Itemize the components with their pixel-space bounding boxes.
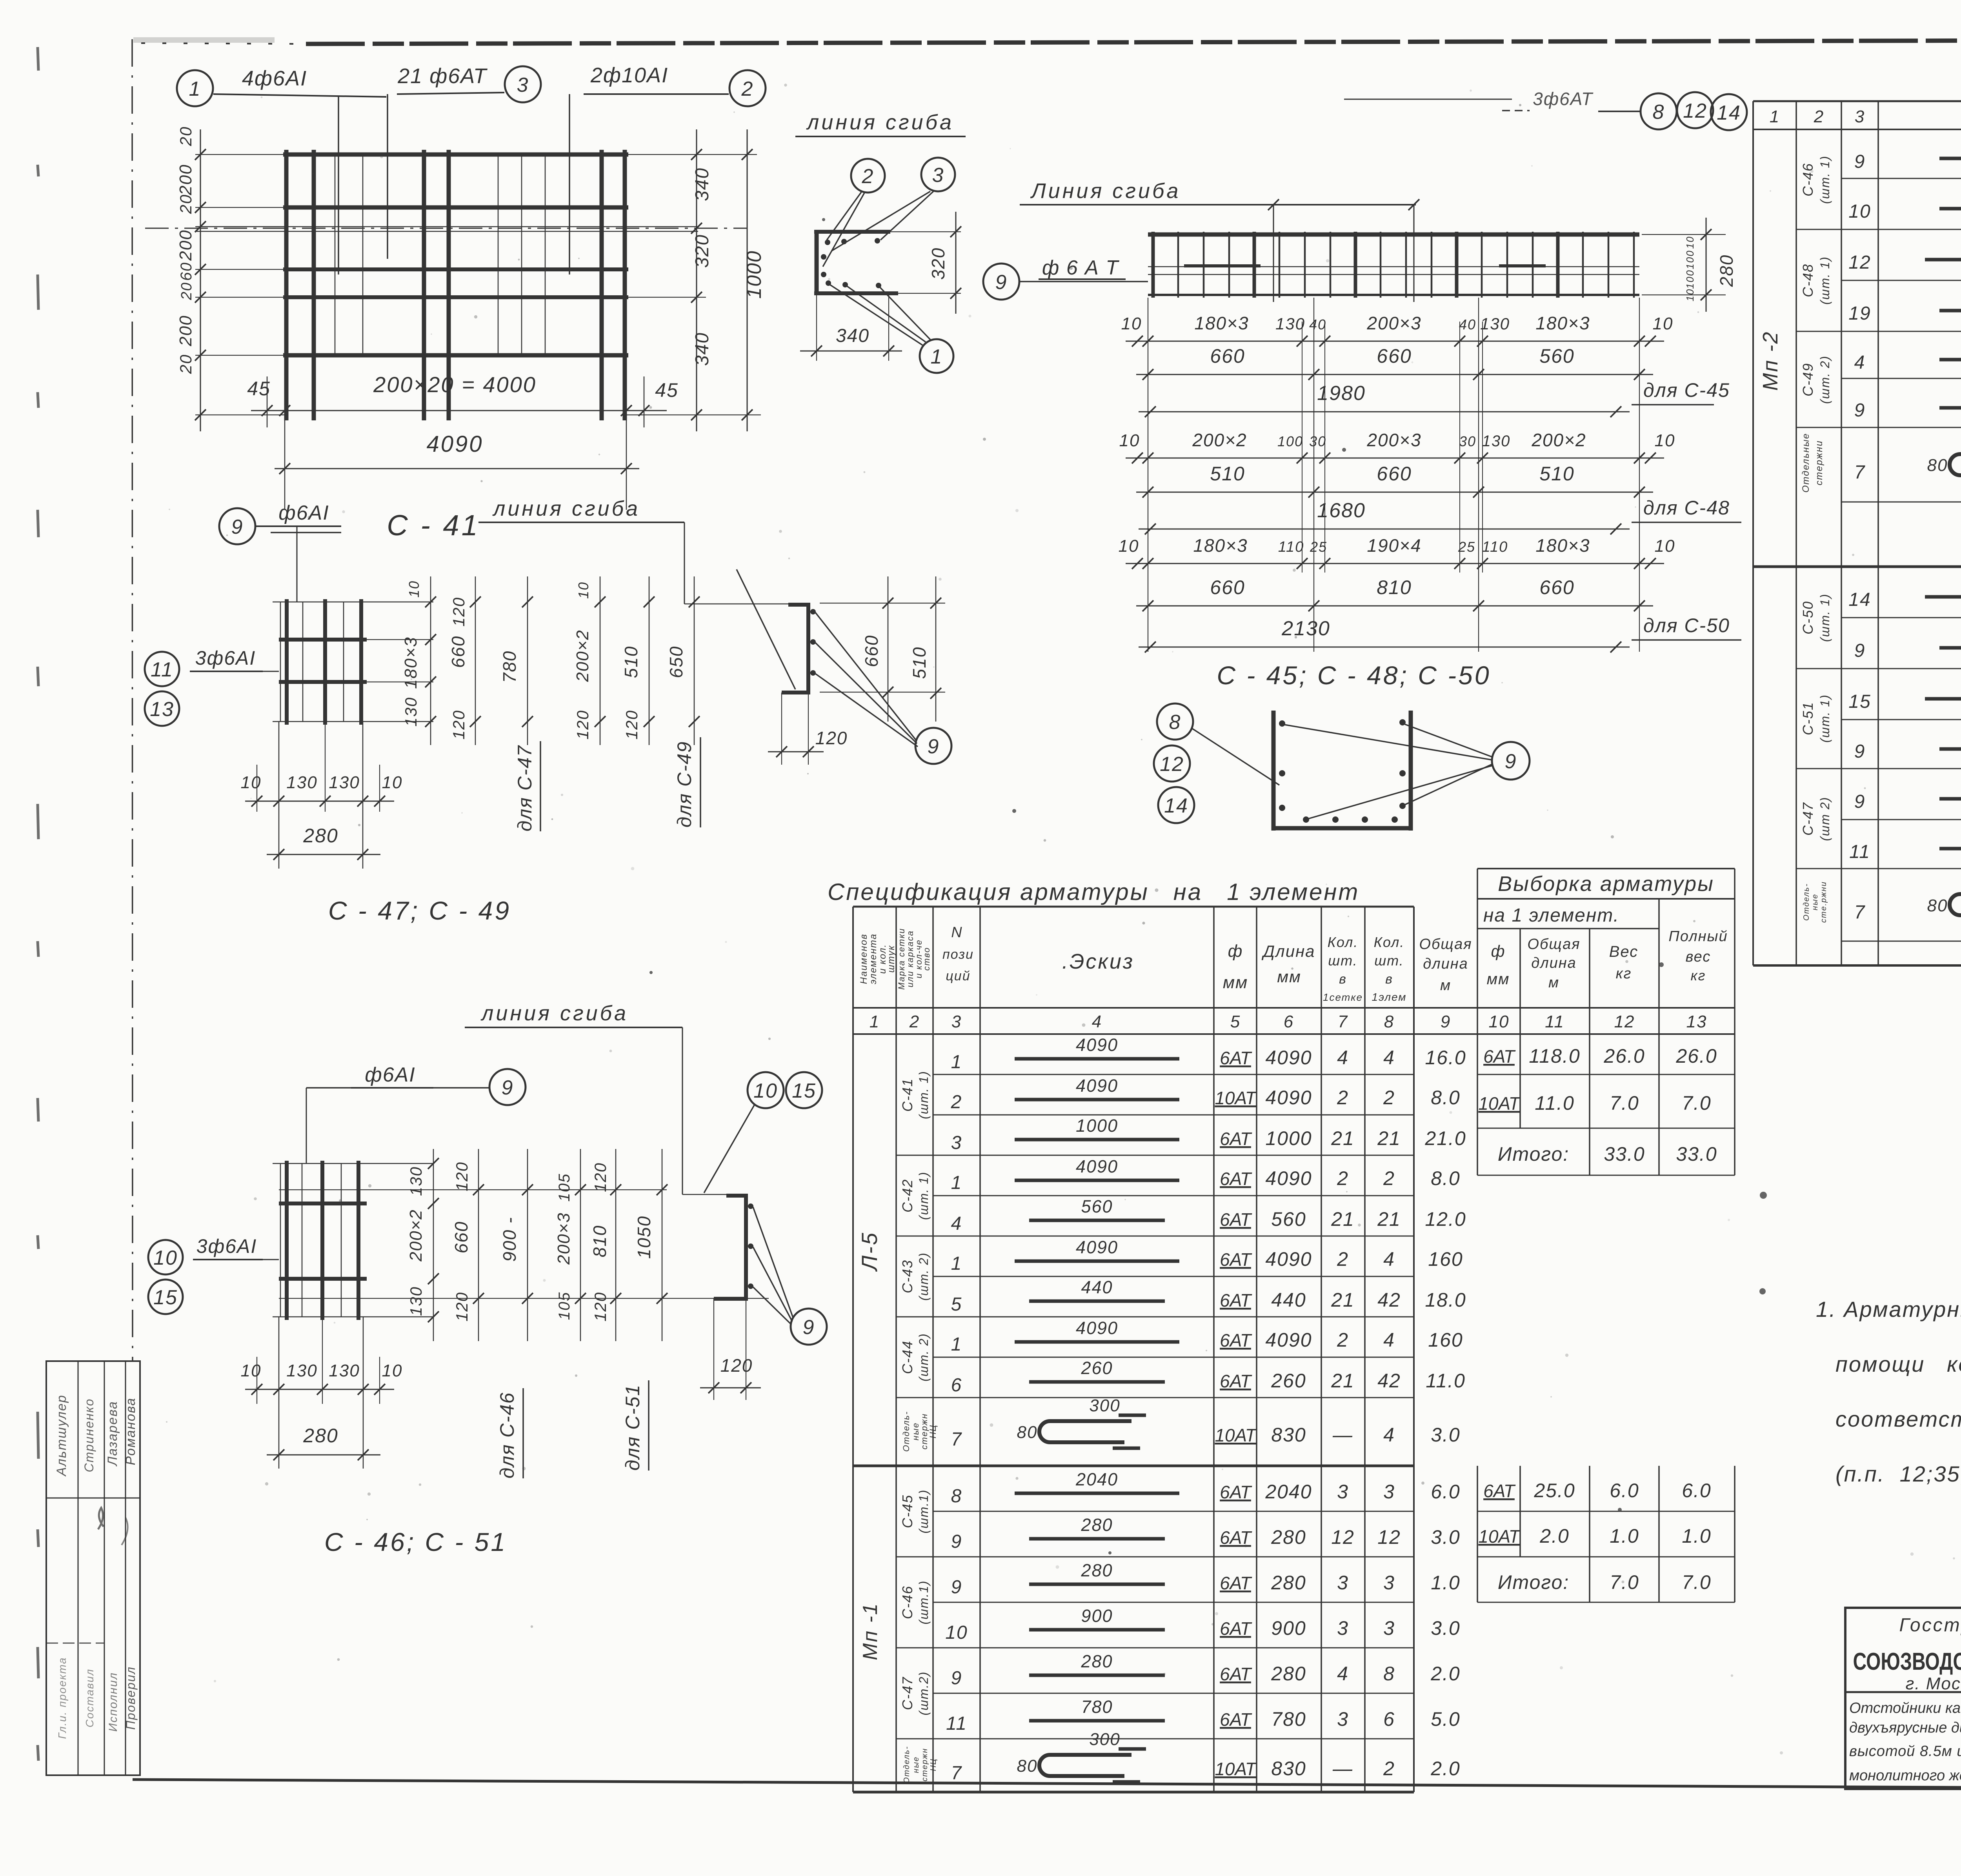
svg-text:сте.ржни: сте.ржни: [1819, 881, 1828, 923]
svg-text:3: 3: [1337, 1617, 1349, 1639]
svg-text:9: 9: [1854, 640, 1866, 661]
svg-text:510: 510: [621, 646, 641, 678]
svg-text:440: 440: [1271, 1289, 1306, 1311]
svg-text:3.0: 3.0: [1431, 1424, 1461, 1446]
svg-text:2: 2: [909, 1012, 920, 1031]
svg-text:6: 6: [1284, 1012, 1294, 1031]
svg-text:3: 3: [517, 74, 529, 96]
svg-text:40: 40: [1309, 316, 1326, 333]
svg-text:(шт. 2): (шт. 2): [1818, 355, 1832, 404]
svg-text:280: 280: [1716, 254, 1737, 287]
svg-text:4090: 4090: [1265, 1087, 1312, 1109]
svg-text:10: 10: [575, 582, 591, 599]
svg-text:(шт.1): (шт.1): [917, 1489, 931, 1534]
svg-text:Длина: Длина: [1261, 942, 1315, 960]
mesh C-41 horizontal rebars: [283, 153, 628, 157]
svg-text:510: 510: [1539, 463, 1574, 485]
svg-text:1000: 1000: [1076, 1116, 1118, 1136]
svg-text:4ф6АІ: 4ф6АІ: [242, 67, 307, 90]
svg-text:120: 120: [622, 710, 641, 740]
svg-text:4090: 4090: [1076, 1035, 1118, 1055]
C-47 callout 9 with label ф6АІ: [219, 508, 255, 544]
svg-text:180×3: 180×3: [1535, 313, 1590, 333]
svg-text:15: 15: [1848, 691, 1871, 712]
svg-text:12: 12: [1331, 1526, 1355, 1548]
svg-text:80: 80: [1927, 456, 1948, 475]
svg-text:ф6АІ: ф6АІ: [278, 502, 329, 524]
svg-text:260: 260: [1081, 1358, 1113, 1378]
svg-text:9: 9: [502, 1076, 514, 1099]
svg-text:6АТ: 6АТ: [1483, 1481, 1516, 1501]
svg-text:С-46: С-46: [899, 1585, 915, 1619]
svg-text:200×3: 200×3: [1366, 430, 1421, 450]
svg-text:33.0: 33.0: [1676, 1143, 1717, 1165]
central выборка grid: [1477, 869, 1478, 1175]
svg-text:560: 560: [1081, 1196, 1113, 1216]
svg-text:10АТ: 10АТ: [1215, 1759, 1257, 1779]
C-46 L-section callout 9 with fan leaders: [791, 1309, 827, 1345]
C-46 bent L-section: [744, 1196, 748, 1300]
C-50 dim row 10/180x3/110/25/190x4/25/110/180x3/10: [1126, 563, 1664, 564]
svg-text:21 ф6АТ: 21 ф6АТ: [397, 64, 488, 88]
svg-text:660: 660: [448, 636, 468, 668]
svg-text:ф: ф: [1228, 942, 1243, 961]
svg-text:1: 1: [951, 1334, 962, 1355]
svg-text:42: 42: [1377, 1370, 1401, 1392]
svg-text:340: 340: [692, 167, 713, 201]
svg-text:10: 10: [382, 1361, 403, 1380]
svg-text:25.0: 25.0: [1534, 1480, 1575, 1502]
svg-text:20: 20: [176, 354, 195, 374]
svg-text:650: 650: [666, 646, 686, 678]
svg-text:Итого:: Итого:: [1498, 1143, 1569, 1165]
svg-text:ф: ф: [1491, 942, 1505, 960]
svg-text:7: 7: [951, 1763, 962, 1783]
svg-text:33.0: 33.0: [1604, 1143, 1645, 1165]
C-45 strip mesh: [1148, 233, 1639, 237]
page frame left border (dash-dot): [132, 39, 133, 1361]
svg-text:Л-5: Л-5: [857, 1231, 882, 1272]
svg-text:180×3: 180×3: [1193, 535, 1248, 556]
svg-text:130: 130: [1275, 314, 1305, 333]
svg-text:7: 7: [1338, 1012, 1348, 1031]
svg-text:Стриненко: Стриненко: [82, 1398, 96, 1472]
svg-text:21: 21: [1331, 1289, 1355, 1311]
svg-text:Составил: Составил: [84, 1669, 96, 1727]
svg-text:Вес: Вес: [1609, 943, 1638, 960]
svg-text:монолитного железобетона.: монолитного железобетона.: [1849, 1767, 1961, 1784]
svg-text:мм: мм: [1277, 967, 1301, 986]
svg-text:6АТ: 6АТ: [1220, 1330, 1252, 1351]
C-46 callouts 10 15 (top right): [748, 1072, 784, 1108]
svg-text:3: 3: [951, 1133, 962, 1153]
svg-text:6АТ: 6АТ: [1220, 1371, 1252, 1391]
right table bottom border: [1753, 964, 1961, 967]
svg-text:5.0: 5.0: [1431, 1708, 1461, 1730]
C-50 dim row 2130 для С-50: [1139, 647, 1630, 648]
svg-text:200: 200: [176, 229, 195, 261]
svg-text:11: 11: [151, 658, 173, 681]
svg-text:стержни: стержни: [1814, 440, 1825, 485]
svg-text:Мп -2: Мп -2: [1759, 331, 1782, 391]
mesh C-47: [285, 599, 289, 725]
svg-text:11.0: 11.0: [1426, 1370, 1466, 1392]
svg-text:8: 8: [1169, 711, 1181, 734]
svg-text:2ф10АІ: 2ф10АІ: [590, 64, 668, 87]
svg-text:120: 120: [573, 710, 592, 740]
C-45 U-shaped cross-section: [1272, 711, 1276, 831]
svg-text:Выборка арматуры: Выборка арматуры: [1498, 872, 1714, 896]
svg-text:высотой 8.5м и 9.7м из: высотой 8.5м и 9.7м из: [1849, 1743, 1961, 1760]
svg-text:80: 80: [1927, 896, 1948, 915]
svg-text:6АТ: 6АТ: [1220, 1048, 1252, 1068]
svg-text:10: 10: [945, 1622, 968, 1643]
central выборка арматуры sub-table: [1477, 868, 1735, 869]
C-41 left dimension chain: [200, 129, 201, 431]
svg-text:10: 10: [753, 1080, 778, 1102]
svg-text:45: 45: [247, 378, 271, 400]
svg-text:2: 2: [1337, 1087, 1349, 1109]
svg-text:1: 1: [189, 78, 201, 100]
svg-text:6АТ: 6АТ: [1220, 1482, 1252, 1502]
svg-text:6АТ: 6АТ: [1483, 1046, 1516, 1067]
svg-text:4090: 4090: [1265, 1167, 1312, 1189]
svg-text:ф 6 А Т: ф 6 А Т: [1042, 256, 1119, 279]
svg-text:7: 7: [1854, 902, 1866, 923]
svg-text:2.0: 2.0: [1430, 1758, 1461, 1780]
svg-text:НЦ: НЦ: [929, 1758, 938, 1771]
svg-text:200×3: 200×3: [554, 1212, 573, 1265]
svg-text:130: 130: [286, 773, 317, 792]
svg-text:2040: 2040: [1265, 1481, 1312, 1503]
svg-text:320: 320: [928, 247, 948, 280]
svg-text:160: 160: [1428, 1329, 1463, 1351]
svg-text:10: 10: [1119, 536, 1139, 556]
svg-text:(шт. 2): (шт. 2): [917, 1252, 931, 1301]
svg-text:780: 780: [1271, 1708, 1306, 1730]
svg-text:200: 200: [176, 315, 195, 346]
svg-text:200: 200: [176, 164, 195, 195]
svg-text:стержн: стержн: [920, 1748, 929, 1781]
svg-text:4: 4: [1337, 1047, 1349, 1069]
svg-text:2: 2: [1337, 1248, 1349, 1270]
svg-text:1980: 1980: [1317, 382, 1366, 405]
svg-text:двухъярусные диаметром 9м,: двухъярусные диаметром 9м,: [1849, 1720, 1961, 1736]
mesh C-41 axis dash-dot line: [145, 228, 747, 229]
C-48 dim row 10/200x2/100/30/200x3/30/130/200x2/10: [1126, 458, 1664, 459]
svg-text:9: 9: [951, 1577, 962, 1598]
right table outer and grid: [1753, 100, 1961, 102]
svg-text:2.0: 2.0: [1539, 1525, 1570, 1547]
svg-text:9: 9: [231, 516, 244, 538]
svg-text:ные: ные: [912, 1756, 920, 1773]
C-41 bottom dimension 4090: [275, 468, 639, 469]
svg-text:шт.: шт.: [1328, 953, 1357, 969]
svg-text:12.0: 12.0: [1425, 1208, 1466, 1230]
svg-text:10: 10: [1655, 536, 1675, 556]
svg-text:110: 110: [1482, 539, 1508, 555]
svg-text:(шт. 1): (шт. 1): [1818, 155, 1832, 204]
svg-text:2: 2: [862, 165, 874, 188]
svg-text:1: 1: [951, 1172, 962, 1193]
svg-text:105: 105: [556, 1292, 573, 1320]
svg-text:м: м: [1440, 977, 1451, 994]
svg-text:30: 30: [1309, 433, 1326, 449]
svg-text:4090: 4090: [1076, 1076, 1118, 1096]
svg-text:Общая: Общая: [1419, 936, 1472, 953]
svg-text:200×20 = 4000: 200×20 = 4000: [373, 372, 537, 397]
svg-text:С-44: С-44: [899, 1340, 915, 1374]
svg-text:12: 12: [1614, 1012, 1635, 1031]
svg-text:ф6АІ: ф6АІ: [365, 1063, 416, 1086]
C-47 L-section leader from callouts 11 13: [737, 569, 795, 689]
mesh C-41 callout 1: [177, 70, 213, 106]
svg-text:9: 9: [1505, 750, 1517, 773]
svg-text:510: 510: [1210, 463, 1245, 485]
svg-text:(шт 2): (шт 2): [1818, 796, 1832, 841]
svg-text:для С-45: для С-45: [1643, 379, 1730, 401]
svg-text:120: 120: [591, 1162, 609, 1192]
C-45 U-section rebar dots: [1279, 720, 1285, 727]
svg-text:7.0: 7.0: [1682, 1571, 1712, 1593]
svg-text:440: 440: [1081, 1277, 1113, 1297]
svg-text:130: 130: [286, 1361, 317, 1380]
svg-text:280: 280: [1081, 1651, 1113, 1671]
svg-text:С-41: С-41: [899, 1078, 915, 1112]
svg-text:260: 260: [1271, 1370, 1306, 1392]
svg-text:120: 120: [453, 1162, 471, 1191]
svg-text:13: 13: [150, 698, 174, 721]
svg-text:45: 45: [655, 379, 679, 401]
svg-text:14: 14: [1848, 589, 1871, 610]
mesh C-46: [285, 1161, 289, 1320]
C-46 callouts 10 15 (left): [148, 1240, 183, 1274]
svg-text:1.0: 1.0: [1431, 1572, 1461, 1594]
svg-text:15: 15: [153, 1286, 178, 1309]
svg-text:4: 4: [1383, 1047, 1395, 1069]
leader lines from callouts into mesh C-41: [338, 97, 339, 274]
svg-text:280: 280: [1271, 1663, 1306, 1685]
svg-text:Отдель-: Отдель-: [902, 1746, 911, 1783]
svg-text:штук: штук: [886, 945, 897, 973]
svg-text:Наименов: Наименов: [859, 934, 869, 984]
svg-text:900 -: 900 -: [499, 1217, 520, 1262]
svg-text:660: 660: [1377, 345, 1412, 367]
svg-text:6АТ: 6АТ: [1220, 1664, 1252, 1684]
svg-text:660: 660: [451, 1221, 471, 1254]
svg-text:7.0: 7.0: [1682, 1092, 1712, 1114]
right table group separators: [1796, 229, 1841, 230]
svg-text:21: 21: [1377, 1127, 1401, 1149]
svg-text:10: 10: [1684, 236, 1696, 249]
scan noise speckles: [969, 315, 971, 318]
svg-text:Спецификация арматуры на: Спецификация арматуры на 1 элемент: [828, 879, 1359, 905]
svg-text:4: 4: [1854, 352, 1866, 373]
svg-text:2: 2: [1383, 1087, 1395, 1109]
svg-text:14: 14: [1164, 794, 1188, 817]
svg-text:(п.п. 12;35; 12;36).: (п.п. 12;35; 12;36).: [1835, 1462, 1961, 1486]
C-41 section callout 1 with leaders: [920, 339, 953, 373]
svg-text:N: N: [951, 924, 962, 941]
central table outer and header grid: [853, 906, 1414, 908]
svg-text:10: 10: [406, 580, 422, 598]
svg-text:1.0: 1.0: [1610, 1525, 1639, 1547]
svg-text:ство: ство: [922, 947, 931, 971]
svg-text:3: 3: [1337, 1708, 1349, 1730]
svg-text:180×3: 180×3: [401, 636, 420, 689]
svg-text:280: 280: [1081, 1515, 1113, 1535]
svg-text:кг: кг: [1691, 967, 1706, 983]
svg-text:С-50: С-50: [1800, 601, 1816, 634]
svg-text:ций: ций: [946, 969, 970, 983]
C-41 bent section outline: [815, 232, 819, 293]
svg-text:1.0: 1.0: [1682, 1525, 1712, 1547]
svg-text:9: 9: [803, 1316, 815, 1339]
svg-text:3ф6АТ: 3ф6АТ: [1533, 89, 1594, 109]
mesh C-41 vertical rebars: [284, 150, 289, 420]
svg-text:2: 2: [951, 1092, 962, 1113]
svg-text:2: 2: [1383, 1167, 1395, 1189]
C-47 bottom dims 10/130/130/10 and 280: [278, 722, 280, 869]
svg-text:С - 46; С - 51: С - 46; С - 51: [324, 1527, 507, 1556]
svg-text:Госстрой СССР: Госстрой СССР: [1899, 1615, 1961, 1636]
svg-text:810: 810: [1377, 576, 1412, 598]
svg-text:18.0: 18.0: [1425, 1289, 1466, 1311]
C-47 callouts 11 13 (left): [145, 652, 179, 686]
svg-text:—: —: [1332, 1424, 1353, 1446]
C-46 dimension chains with rotated labels: [433, 1149, 434, 1341]
C-41 section callout 3: [921, 158, 955, 191]
svg-text:3: 3: [1337, 1572, 1349, 1594]
svg-text:40: 40: [1459, 316, 1476, 333]
svg-text:С-45: С-45: [899, 1494, 915, 1528]
svg-text:16.0: 16.0: [1425, 1047, 1466, 1069]
svg-text:8.0: 8.0: [1431, 1087, 1461, 1109]
svg-text:660: 660: [1210, 345, 1245, 367]
svg-text:м: м: [1548, 974, 1559, 991]
svg-text:(шт.1): (шт.1): [917, 1580, 931, 1625]
central table МЛ-1 thick divider: [853, 1465, 1414, 1467]
svg-text:пози: пози: [942, 947, 974, 962]
svg-text:для С-47: для С-47: [514, 745, 536, 831]
svg-text:10: 10: [1655, 431, 1675, 450]
svg-text:190×4: 190×4: [1367, 535, 1421, 556]
svg-text:9: 9: [1441, 1012, 1451, 1031]
svg-text:С-43: С-43: [899, 1260, 915, 1293]
svg-text:180×3: 180×3: [1535, 535, 1590, 556]
svg-text:6АТ: 6АТ: [1220, 1249, 1252, 1270]
svg-text:Проверил: Проверил: [124, 1666, 138, 1730]
svg-text:в: в: [1339, 972, 1347, 987]
svg-text:560: 560: [1539, 345, 1574, 367]
svg-text:80: 80: [1017, 1756, 1038, 1776]
svg-text:10: 10: [1121, 314, 1142, 333]
C-45 dim row 10/180x3/130/40/200x3/40/130/180x3/10: [1126, 341, 1664, 342]
C-46 fold leader down to bent section: [682, 1027, 683, 1194]
svg-text:160: 160: [1428, 1248, 1463, 1270]
svg-text:3.0: 3.0: [1431, 1617, 1461, 1639]
C-45 strip dimension verticals: [1148, 298, 1148, 652]
svg-text:20: 20: [176, 126, 195, 147]
svg-text:10: 10: [1489, 1012, 1510, 1031]
svg-text:3: 3: [1383, 1572, 1395, 1594]
svg-text:660: 660: [1539, 576, 1574, 598]
svg-text:3ф6АІ: 3ф6АІ: [195, 647, 256, 669]
svg-text:280: 280: [303, 825, 338, 847]
svg-text:30: 30: [1459, 433, 1476, 449]
svg-text:12: 12: [1377, 1526, 1401, 1548]
svg-text:200×2: 200×2: [1192, 430, 1247, 450]
svg-text:4: 4: [1383, 1248, 1395, 1270]
svg-text:6АТ: 6АТ: [1220, 1709, 1252, 1730]
svg-text:120: 120: [449, 710, 468, 740]
svg-text:2: 2: [1814, 107, 1824, 126]
svg-text:Отдель-: Отдель-: [1802, 883, 1811, 921]
C-47 dimension chains with rotated labels: [430, 576, 431, 745]
svg-text:6АТ: 6АТ: [1220, 1209, 1252, 1230]
svg-text:Кол.: Кол.: [1374, 934, 1405, 950]
svg-text:4: 4: [1383, 1329, 1395, 1351]
svg-text:300: 300: [1089, 1730, 1120, 1749]
svg-text:100: 100: [1684, 269, 1696, 289]
C-48 dim row 510/660/510: [1136, 492, 1653, 493]
signature table grid: [46, 1361, 140, 1775]
svg-text:4: 4: [1337, 1663, 1349, 1685]
C-48 dim row 1680 для С-48: [1139, 529, 1630, 530]
svg-text:19: 19: [1848, 303, 1871, 324]
svg-text:15: 15: [792, 1080, 816, 1102]
svg-text:1: 1: [951, 1052, 962, 1073]
svg-text:1050: 1050: [634, 1216, 654, 1259]
svg-text:С-47: С-47: [899, 1676, 915, 1710]
svg-text:120: 120: [453, 1292, 471, 1322]
C-47 auxiliary vertical dims 660 510: [820, 603, 945, 604]
svg-text:10: 10: [1684, 289, 1696, 302]
C-41 right dimension chain 340/320/340: [696, 129, 697, 431]
svg-text:.Эскиз: .Эскиз: [1062, 950, 1134, 973]
svg-text:С-42: С-42: [899, 1179, 915, 1212]
svg-text:10: 10: [382, 773, 403, 792]
svg-text:7: 7: [1854, 462, 1866, 483]
svg-text:7: 7: [951, 1429, 962, 1450]
svg-text:13: 13: [1686, 1012, 1707, 1031]
svg-text:Отстойники канализационные: Отстойники канализационные: [1849, 1700, 1961, 1716]
svg-text:4: 4: [1383, 1424, 1395, 1446]
svg-text:8: 8: [1383, 1663, 1395, 1685]
mesh C-41 callout 3: [505, 66, 541, 102]
svg-text:4090: 4090: [1076, 1237, 1118, 1257]
C-47 L-section callout 9 with fan leaders: [915, 728, 951, 764]
C-41 section leader lines from callouts 2,3: [827, 192, 861, 240]
svg-text:1элем: 1элем: [1372, 991, 1407, 1003]
svg-text:2: 2: [741, 78, 754, 100]
svg-text:С - 41: С - 41: [387, 509, 480, 542]
svg-text:3.0: 3.0: [1431, 1526, 1461, 1548]
svg-text:1: 1: [870, 1012, 880, 1031]
C-41 right dimension 1000: [747, 129, 748, 431]
svg-text:11: 11: [1849, 842, 1870, 862]
svg-text:340: 340: [836, 325, 870, 346]
mesh C-41 callout 2: [729, 70, 766, 106]
svg-text:100: 100: [1277, 433, 1303, 449]
C-45 U-section callouts 8 12 14: [1157, 703, 1193, 740]
svg-text:(шт. 2): (шт. 2): [917, 1333, 931, 1382]
svg-text:130: 130: [329, 1361, 360, 1380]
svg-text:—: —: [1332, 1758, 1353, 1780]
svg-text:10АТ: 10АТ: [1478, 1526, 1521, 1547]
svg-text:6.0: 6.0: [1610, 1480, 1639, 1502]
svg-text:9: 9: [951, 1531, 962, 1552]
